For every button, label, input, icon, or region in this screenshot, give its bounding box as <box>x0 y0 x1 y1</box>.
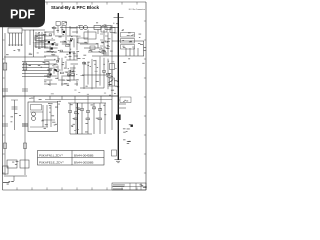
svg-text:KC. Na Connector: KC. Na Connector <box>129 8 146 11</box>
svg-text:BN44-00458B: BN44-00458B <box>74 153 93 157</box>
svg-text:PDF: PDF <box>10 7 35 21</box>
svg-text:Stand-By & PFC Block: Stand-By & PFC Block <box>51 5 100 10</box>
svg-text:P0KAFE1E_ZDY*: P0KAFE1E_ZDY* <box>39 161 65 165</box>
svg-text:P0KAFN1(_ZDY*: P0KAFN1(_ZDY* <box>39 153 64 157</box>
svg-text:BN44-00508B: BN44-00508B <box>74 161 93 165</box>
